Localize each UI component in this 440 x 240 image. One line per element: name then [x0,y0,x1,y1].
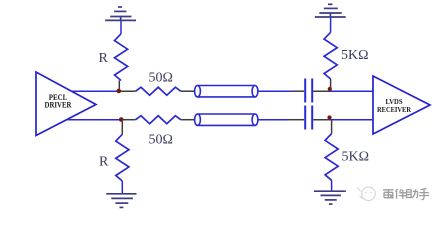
resistor R (upper pull-up) [115,20,128,91]
wire [119,90,136,92]
watermark text: hardware assistant CJK strokes [383,189,429,200]
capacitor C2 (lower AC coupling) [305,106,312,130]
wire [121,119,135,121]
wire [330,90,373,92]
op-amp LVDS receiver [373,76,430,134]
op-amp PECL driver [36,72,96,136]
wire [181,90,195,92]
junction node (upper left) [117,89,122,94]
wire [288,119,304,121]
svg-text:50Ω: 50Ω [149,133,173,148]
junction node (lower left) [119,117,124,122]
svg-text:RECEIVER: RECEIVER [377,105,411,114]
svg-text:R: R [99,51,109,66]
svg-text:5KΩ: 5KΩ [342,150,370,165]
ground (lower right) [314,191,346,204]
resistor 50ohm (lower) [136,116,181,124]
svg-text:DRIVER: DRIVER [45,100,72,109]
power rail symbol (top right) [315,4,346,17]
resistor 5K (upper pull-up) [324,17,337,91]
resistor R (lower pull-down) [116,120,129,194]
wire [258,119,288,121]
wire [71,90,119,92]
resistor 5K (lower pull-down) [325,120,338,192]
resistor 50ohm (upper) [136,87,181,95]
svg-text:50Ω: 50Ω [149,71,173,86]
wire [181,119,195,121]
junction node (upper right) [328,87,332,91]
wire [292,90,304,92]
svg-text:R: R [99,155,109,170]
transmission line T1 (upper) [195,86,258,97]
wire [330,119,373,121]
watermark logo icon [358,187,376,201]
wire [68,119,122,121]
junction node (lower right) [327,115,331,119]
svg-text:5KΩ: 5KΩ [341,48,369,63]
transmission line T2 (lower) [195,114,258,125]
capacitor C1 (upper AC coupling) [305,79,312,103]
wire [258,90,292,92]
wire [313,119,330,121]
power rail symbol (top left) [105,7,136,20]
ground (lower left) [106,194,136,208]
wire [313,90,330,92]
